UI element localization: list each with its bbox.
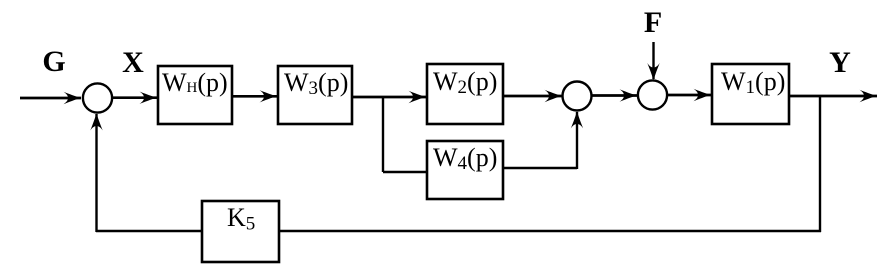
arrowhead down into summing junction S3 bbox=[647, 63, 659, 80]
arrowhead into block W1 bbox=[694, 89, 711, 101]
wire: W4 output across bbox=[503, 167, 577, 169]
wire: input G into summing junction S1 bbox=[20, 97, 81, 100]
wire: W4 output up to S2 bottom bbox=[576, 112, 578, 169]
arrowhead up into summing junction S2 bbox=[571, 111, 583, 128]
arrowhead into block WH bbox=[140, 92, 157, 104]
arrowhead into summing junction S3 bbox=[620, 89, 637, 101]
summing junction S2 bbox=[563, 82, 592, 111]
summing junction S3 bbox=[638, 80, 667, 109]
wire: W3 to W2 (through branch node) bbox=[352, 96, 426, 99]
block W2(p) bbox=[427, 64, 503, 124]
wire: W2 output to summing junction S2 bbox=[503, 95, 562, 98]
svg-text:X: X bbox=[122, 46, 144, 79]
wire: WH to W3 bbox=[232, 95, 277, 98]
block K5 bbox=[202, 201, 279, 262]
svg-text:Y: Y bbox=[829, 46, 851, 79]
block W3(p) bbox=[278, 66, 352, 124]
wire: across into block W4 bbox=[383, 171, 428, 173]
wire: branch node down to W4 level bbox=[382, 97, 384, 172]
wire: W1 output to Y (through feedback takeoff node) bbox=[789, 95, 877, 98]
block W4(p) bbox=[427, 141, 503, 199]
arrowhead into block W2 bbox=[409, 91, 426, 103]
wire: F down into S3 bbox=[652, 42, 654, 79]
wire: S3 to block W1 bbox=[667, 94, 711, 97]
wire: feedback from K5 left across bbox=[96, 230, 202, 232]
arrowhead up into summing junction S1 bbox=[90, 113, 102, 130]
block WH(p) bbox=[158, 66, 232, 124]
block W1(p) bbox=[712, 64, 789, 124]
wire: feedback takeoff down on right bbox=[819, 96, 821, 232]
arrowhead into block W3 bbox=[260, 90, 277, 102]
arrowhead into summing junction S1 bbox=[64, 92, 81, 104]
wire: feedback up left into S1 bottom bbox=[95, 114, 97, 232]
arrowhead into summing junction S2 bbox=[545, 90, 562, 102]
wire: S2 to summing junction S3 bbox=[591, 94, 637, 97]
summing junction S1 bbox=[83, 83, 112, 112]
wire: feedback bottom run right segment into K5 bbox=[279, 230, 821, 232]
svg-text:F: F bbox=[644, 6, 662, 39]
arrowhead at output Y bbox=[860, 90, 877, 102]
svg-text:G: G bbox=[42, 45, 65, 78]
wire: S1 to block WH bbox=[112, 96, 157, 99]
